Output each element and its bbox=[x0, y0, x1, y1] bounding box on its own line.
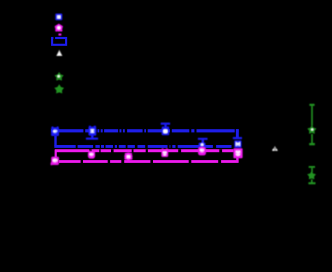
legend marker: white flow arrow bbox=[56, 50, 62, 56]
pipe: magenta supply left corner down to valve M1 bbox=[55, 150, 57, 158]
valve V4 (blue, on return line, T-handle up) bbox=[198, 138, 208, 147]
pipe: blue supply main (horizontal, y=130.6) bbox=[51, 129, 239, 133]
legend marker: green sensor star (active) bbox=[55, 72, 64, 81]
pipe: blue corner drop at right end bbox=[236, 129, 239, 137]
pipe: blue drop from valve V1 to return line bbox=[54, 136, 56, 146]
legend marker: magenta tick bbox=[59, 34, 62, 36]
pipe: magenta return (y=161.4) bbox=[59, 160, 239, 163]
valve stack V5: T-handle + motor box (blue, "M") bbox=[233, 137, 242, 148]
sensor G1 (green error-bar with star, right side) bbox=[307, 104, 316, 146]
pump M4 (large magenta blob under valve V4) bbox=[198, 147, 206, 156]
legend marker: green sensor star bbox=[54, 84, 64, 93]
legend marker: magenta pump circle bbox=[55, 24, 63, 32]
flow arrow (gray, mid-right) bbox=[272, 146, 278, 151]
pipe: magenta stem from box M5 down to return line bbox=[236, 158, 238, 162]
valve V1 (blue, far left on supply main) bbox=[51, 127, 59, 137]
valve M3 (magenta, tabs, on supply line) bbox=[161, 148, 168, 157]
legend marker: blue contact square bbox=[55, 14, 62, 21]
sensor G2 (green error-bar with star, right side lower) bbox=[307, 166, 316, 184]
pump M2 (magenta flower under supply line) bbox=[88, 150, 95, 158]
valve M1 (magenta, lower-left) bbox=[51, 157, 59, 166]
pipe: blue return (dashed, y=146.3) bbox=[54, 145, 231, 148]
pump M6 (magenta flower on return line) bbox=[124, 152, 132, 161]
valve V2 (blue, bowtie, with stem down to T-base) bbox=[86, 126, 98, 140]
valve stack V5: magenta box below (heat exchanger) bbox=[233, 148, 242, 158]
valve V3 (blue, stem up with T-handle, on supply main) bbox=[161, 123, 170, 136]
legend marker: blue tank rectangle bbox=[52, 37, 66, 45]
pipe: magenta supply (y=150.9) bbox=[55, 149, 234, 152]
